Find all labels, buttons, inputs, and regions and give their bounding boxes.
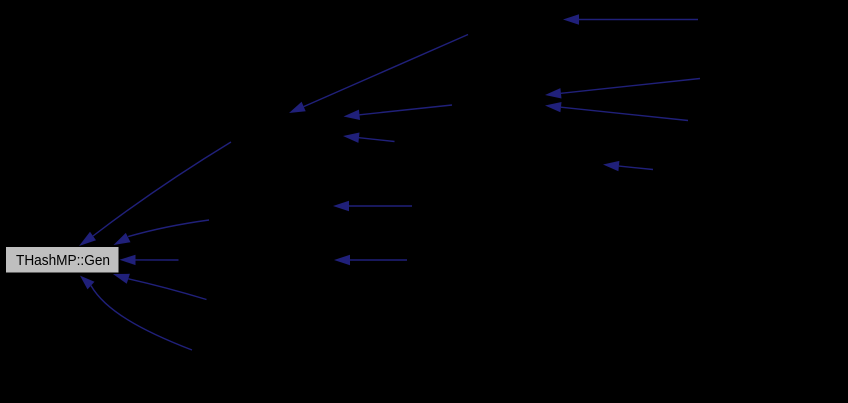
edge 7 [603, 161, 653, 171]
edge 1 [563, 14, 698, 24]
node THashMP::Gen [6, 247, 120, 274]
edge 11 [114, 220, 210, 245]
edge 6 [545, 102, 688, 121]
edge 5 [545, 79, 700, 99]
edge 14 [80, 276, 192, 350]
edge 4 [343, 133, 395, 143]
edge 8 [333, 201, 412, 211]
edge 3 [344, 105, 453, 120]
edge 12 [120, 255, 179, 265]
edge 2 [289, 35, 468, 114]
svg-text:THashMP::Gen: THashMP::Gen [16, 253, 110, 269]
edge 9 [334, 255, 407, 265]
edge 13 [113, 274, 207, 300]
edge 10 [79, 142, 231, 246]
